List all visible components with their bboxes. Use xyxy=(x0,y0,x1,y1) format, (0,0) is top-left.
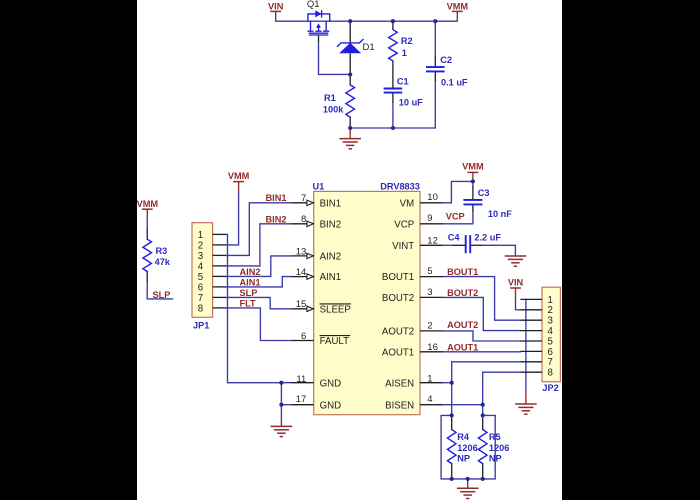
svg-text:47k: 47k xyxy=(155,257,171,267)
svg-text:JP1: JP1 xyxy=(193,320,209,330)
svg-text:C4: C4 xyxy=(448,233,461,243)
svg-text:NP: NP xyxy=(457,454,470,464)
svg-text:AISEN: AISEN xyxy=(385,378,414,389)
svg-text:3: 3 xyxy=(198,251,203,262)
svg-text:7: 7 xyxy=(198,293,203,304)
svg-text:BIN1: BIN1 xyxy=(266,193,287,203)
svg-text:4: 4 xyxy=(548,326,554,337)
svg-text:VM: VM xyxy=(400,198,415,209)
svg-text:6: 6 xyxy=(548,347,553,358)
svg-text:3: 3 xyxy=(548,316,553,327)
svg-text:2.2 uF: 2.2 uF xyxy=(474,233,501,243)
svg-text:10 uF: 10 uF xyxy=(399,98,423,108)
svg-text:4: 4 xyxy=(427,394,432,405)
svg-text:10: 10 xyxy=(427,192,438,203)
svg-text:D1: D1 xyxy=(363,42,375,53)
svg-text:FAULT: FAULT xyxy=(320,336,350,347)
svg-text:R2: R2 xyxy=(401,36,413,46)
svg-text:R4: R4 xyxy=(457,432,470,442)
svg-text:1: 1 xyxy=(548,295,553,306)
svg-text:R5: R5 xyxy=(489,432,501,442)
svg-text:R1: R1 xyxy=(324,93,336,103)
svg-text:15: 15 xyxy=(296,299,307,310)
svg-text:BIN2: BIN2 xyxy=(320,219,342,230)
svg-text:VMM: VMM xyxy=(447,1,469,11)
svg-text:BOUT1: BOUT1 xyxy=(382,272,414,283)
svg-text:5: 5 xyxy=(427,266,432,277)
svg-text:1: 1 xyxy=(427,373,432,384)
svg-text:Q1: Q1 xyxy=(307,0,320,10)
svg-text:AIN1: AIN1 xyxy=(320,272,342,283)
svg-text:12: 12 xyxy=(427,235,438,246)
svg-text:AOUT2: AOUT2 xyxy=(447,320,478,330)
svg-text:FLT: FLT xyxy=(240,298,257,308)
svg-text:R3: R3 xyxy=(156,246,168,256)
svg-text:2: 2 xyxy=(198,240,203,251)
svg-text:BOUT2: BOUT2 xyxy=(382,293,414,304)
svg-text:VCP: VCP xyxy=(394,219,414,230)
svg-text:BOUT2: BOUT2 xyxy=(447,288,478,298)
svg-text:6: 6 xyxy=(198,282,203,293)
svg-text:SLP: SLP xyxy=(153,290,171,300)
svg-text:VMM: VMM xyxy=(137,199,159,209)
svg-text:14: 14 xyxy=(296,267,307,278)
svg-text:U1: U1 xyxy=(313,181,325,191)
svg-text:BIN2: BIN2 xyxy=(266,214,287,224)
svg-text:1: 1 xyxy=(198,230,203,241)
svg-text:AOUT2: AOUT2 xyxy=(382,327,414,338)
svg-text:SLP: SLP xyxy=(240,288,258,298)
svg-text:VIN: VIN xyxy=(508,277,524,287)
svg-text:11: 11 xyxy=(296,374,306,385)
svg-text:JP2: JP2 xyxy=(542,383,558,393)
svg-text:5: 5 xyxy=(548,336,553,347)
svg-text:BIN1: BIN1 xyxy=(320,198,342,209)
svg-text:AIN1: AIN1 xyxy=(240,277,261,287)
svg-text:100k: 100k xyxy=(323,104,344,114)
svg-text:1206: 1206 xyxy=(489,443,509,453)
svg-text:GND: GND xyxy=(320,378,342,389)
svg-text:NP: NP xyxy=(489,454,502,464)
svg-text:8: 8 xyxy=(301,214,306,225)
svg-text:C3: C3 xyxy=(478,188,490,198)
svg-text:DRV8833: DRV8833 xyxy=(380,181,420,191)
svg-text:SLEEP: SLEEP xyxy=(320,304,351,315)
svg-text:2: 2 xyxy=(427,320,432,331)
svg-text:AIN2: AIN2 xyxy=(320,252,342,263)
svg-text:1206: 1206 xyxy=(457,443,477,453)
svg-text:AOUT1: AOUT1 xyxy=(382,347,414,358)
svg-text:5: 5 xyxy=(198,272,203,283)
svg-text:VIN: VIN xyxy=(268,1,284,11)
svg-text:8: 8 xyxy=(548,368,553,379)
svg-text:VINT: VINT xyxy=(392,241,414,252)
svg-text:C2: C2 xyxy=(440,55,452,65)
svg-text:3: 3 xyxy=(427,287,432,298)
svg-text:4: 4 xyxy=(198,261,204,272)
svg-text:AIN2: AIN2 xyxy=(240,267,261,277)
svg-text:13: 13 xyxy=(296,246,307,257)
svg-text:AOUT1: AOUT1 xyxy=(447,343,478,353)
svg-text:17: 17 xyxy=(296,394,307,405)
svg-text:16: 16 xyxy=(427,342,438,353)
svg-text:0.1 uF: 0.1 uF xyxy=(441,78,468,88)
svg-text:6: 6 xyxy=(301,331,306,342)
svg-text:7: 7 xyxy=(301,193,306,204)
svg-text:VMM: VMM xyxy=(228,171,250,181)
svg-text:7: 7 xyxy=(548,357,553,368)
svg-text:2: 2 xyxy=(548,305,553,316)
svg-text:GND: GND xyxy=(320,400,342,411)
svg-text:1: 1 xyxy=(402,48,407,58)
svg-text:VMM: VMM xyxy=(462,161,484,171)
svg-text:C1: C1 xyxy=(397,77,409,87)
svg-text:BISEN: BISEN xyxy=(385,400,414,411)
svg-text:VCP: VCP xyxy=(446,212,465,222)
svg-text:8: 8 xyxy=(198,303,203,314)
svg-text:BOUT1: BOUT1 xyxy=(447,267,478,277)
svg-text:9: 9 xyxy=(427,213,432,224)
svg-text:10 nF: 10 nF xyxy=(488,209,512,219)
